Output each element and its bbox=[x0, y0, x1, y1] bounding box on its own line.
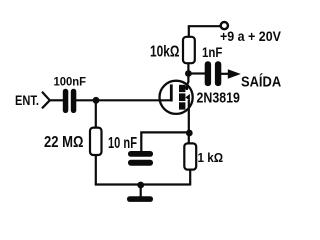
svg-text:22 MΩ: 22 MΩ bbox=[44, 134, 84, 152]
svg-text:100nF: 100nF bbox=[54, 75, 87, 88]
svg-text:1 kΩ: 1 kΩ bbox=[198, 150, 224, 165]
svg-text:ENT.: ENT. bbox=[15, 93, 39, 109]
svg-text:2N3819: 2N3819 bbox=[197, 89, 240, 105]
svg-text:1nF: 1nF bbox=[202, 44, 223, 60]
svg-text:10kΩ: 10kΩ bbox=[150, 42, 179, 60]
svg-text:+9 a + 20V: +9 a + 20V bbox=[220, 29, 281, 45]
svg-text:SAÍDA: SAÍDA bbox=[241, 73, 281, 90]
svg-text:10 nF: 10 nF bbox=[108, 134, 137, 151]
